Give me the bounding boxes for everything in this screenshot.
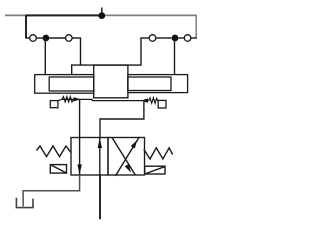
nozzle right (inner) bbox=[128, 77, 171, 91]
nozzle left (inner) bbox=[49, 77, 93, 91]
solenoid left (box with diagonal) bbox=[50, 165, 66, 174]
feedback spring left (zigzag) bbox=[62, 97, 74, 102]
wire left orifice row bbox=[25, 37, 81, 39]
wire link to left drain box bbox=[57, 99, 62, 101]
orifice O3 (right inner) bbox=[149, 35, 156, 42]
spring left (main valve) bbox=[37, 146, 72, 157]
main valve right position box bbox=[108, 138, 145, 176]
solenoid right (box with diagonal) bbox=[145, 166, 165, 174]
orifice O4 (right outer) bbox=[184, 35, 191, 42]
drain box left (small square) bbox=[50, 101, 58, 108]
wire flapper beam right bbox=[92, 100, 149, 102]
wire flapper beam left bbox=[62, 99, 92, 100]
wire rail dark segment (left branch to junction) bbox=[26, 14, 102, 16]
nozzle housing right (outer) bbox=[128, 75, 188, 93]
orifice O2 (left inner) bbox=[66, 35, 73, 42]
wire tank return (valve to tank) bbox=[23, 175, 80, 206]
wire right orifice row bbox=[140, 37, 196, 39]
arrowhead down flow path A bbox=[77, 164, 81, 174]
arrowhead crossed 1 bbox=[131, 140, 137, 149]
flow path A (left box, down arrow) bbox=[79, 138, 81, 176]
drain box right (small square) bbox=[158, 100, 166, 108]
spring right (main valve) bbox=[144, 148, 173, 159]
supply rail P (top horizontal line) bbox=[5, 14, 197, 16]
arrowhead right beam bbox=[141, 98, 148, 102]
wire left drop from rail to left orifice row bbox=[25, 15, 27, 38]
node junction dot on rail bbox=[98, 12, 105, 19]
main valve left position box bbox=[71, 138, 108, 176]
tank symbol bbox=[16, 198, 33, 208]
wire right drop from rail to right orifice row bbox=[195, 15, 197, 38]
orifice O1 (left outer) bbox=[30, 35, 37, 42]
wire pressure supply line (bottom centre) bbox=[99, 175, 101, 219]
flow path crossed 2 (right box, down-right arrow) bbox=[112, 138, 135, 175]
arrowhead up flow path B bbox=[98, 138, 102, 148]
arrowhead crossed 2 bbox=[125, 164, 132, 172]
nozzle housing left (outer) bbox=[35, 75, 94, 94]
node junction dot left branch bbox=[43, 35, 50, 42]
wire right pilot Z-path to main valve bbox=[100, 101, 144, 138]
wire feed to right nozzle housing bbox=[174, 38, 176, 75]
arrowhead left beam bbox=[74, 97, 81, 101]
wire stub up from junction bbox=[101, 8, 103, 16]
wire pilot header (horizontal over armature) bbox=[72, 38, 141, 75]
flow path B (left box, up arrow) bbox=[99, 138, 101, 176]
wire left pilot line down to main valve bbox=[79, 99, 81, 137]
feedback spring right (zigzag) bbox=[149, 98, 158, 103]
wire feed to left nozzle housing bbox=[44, 38, 46, 75]
node junction dot right branch bbox=[172, 35, 179, 42]
flow path crossed 1 (right box, up-right arrow) bbox=[115, 137, 139, 176]
wire left pilot port (row to header) bbox=[80, 38, 82, 65]
armature flapper block bbox=[94, 65, 128, 98]
